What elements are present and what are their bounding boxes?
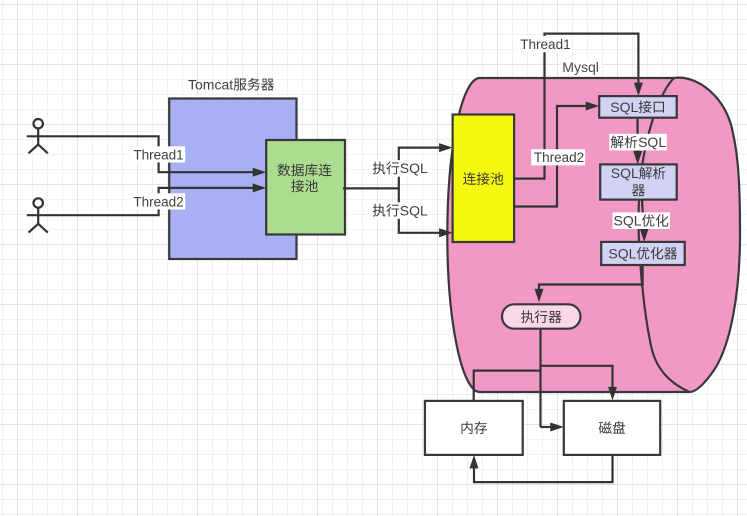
wire Thread2 from user2 to green box xyxy=(49,188,255,215)
label executor text xyxy=(521,310,561,323)
label Thread2 right xyxy=(531,149,585,165)
label Tomcat server title xyxy=(188,77,274,93)
wire Thread1 from user1 to green box xyxy=(49,136,255,172)
cylinder inner rim arc xyxy=(639,78,690,392)
label Thread1 left xyxy=(131,146,185,162)
label Mysql xyxy=(560,59,602,76)
svg-text:SQL: SQL xyxy=(638,134,666,150)
svg-text:SQL: SQL xyxy=(611,165,639,181)
wire Thread2 from yellow box to SQL interface left xyxy=(514,106,588,207)
wire exec SQL upper from green box to yellow box xyxy=(343,148,441,189)
svg-text:Tomcat: Tomcat xyxy=(188,77,233,93)
wire optimizer to executor xyxy=(539,265,643,290)
svg-text:SQL: SQL xyxy=(614,213,642,229)
wire disk bottom to memory bottom xyxy=(474,455,613,482)
label parse SQL xyxy=(609,134,667,151)
db connection pool box (green) xyxy=(266,140,345,235)
label Thread2 left xyxy=(131,193,185,209)
SQL parser box xyxy=(600,164,677,199)
label SQL optimize xyxy=(613,212,671,229)
svg-text:SQL: SQL xyxy=(400,202,428,218)
svg-text:SQL: SQL xyxy=(400,160,428,176)
wire SQL interface to parser xyxy=(636,118,638,152)
svg-text:Mysql: Mysql xyxy=(562,59,599,75)
label exec SQL upper xyxy=(370,160,431,177)
SQL optimizer box xyxy=(601,242,685,265)
label exec SQL lower xyxy=(370,202,431,219)
SQL interface box xyxy=(599,96,677,118)
wire exec SQL lower branch to yellow box xyxy=(399,188,441,232)
Tomcat server box xyxy=(169,99,296,260)
label SQL parser text xyxy=(611,165,666,196)
wire branch to disk left xyxy=(541,426,553,428)
label SQL optimizer text xyxy=(608,245,677,261)
svg-text:Thread2: Thread2 xyxy=(534,150,584,165)
executor pill xyxy=(502,304,581,328)
svg-text:Thread1: Thread1 xyxy=(520,37,570,52)
Mysql cylinder body xyxy=(447,78,740,392)
svg-text:SQL: SQL xyxy=(608,245,636,261)
label memory text xyxy=(462,421,488,434)
wire executor trunk down xyxy=(539,329,541,427)
svg-text:Thread1: Thread1 xyxy=(133,147,183,162)
wire parser to optimizer xyxy=(642,200,644,230)
disk box xyxy=(564,401,660,455)
wire Thread1 from yellow box over top into SQL interface xyxy=(514,34,638,179)
label green box text xyxy=(278,164,332,193)
actor user2 xyxy=(27,198,49,232)
label SQL interface text xyxy=(610,99,664,115)
wire branch to memory top xyxy=(474,371,541,401)
svg-text:Thread2: Thread2 xyxy=(133,194,183,209)
actor user1 xyxy=(27,119,49,153)
label disk text xyxy=(599,421,626,434)
memory box xyxy=(425,401,523,455)
connection pool box (yellow) xyxy=(453,115,514,243)
label yellow box text xyxy=(463,172,503,185)
svg-text:SQL: SQL xyxy=(610,99,638,115)
wire branch to disk top xyxy=(541,366,613,389)
label Thread1 top xyxy=(517,36,571,52)
